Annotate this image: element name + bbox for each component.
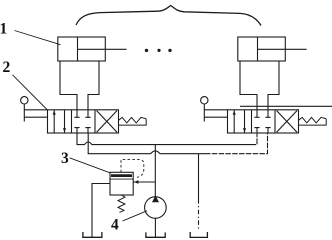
- svg-text:3: 3: [61, 150, 69, 167]
- svg-text:4: 4: [111, 216, 119, 233]
- svg-text:2: 2: [3, 59, 11, 76]
- svg-text:1: 1: [0, 20, 7, 37]
